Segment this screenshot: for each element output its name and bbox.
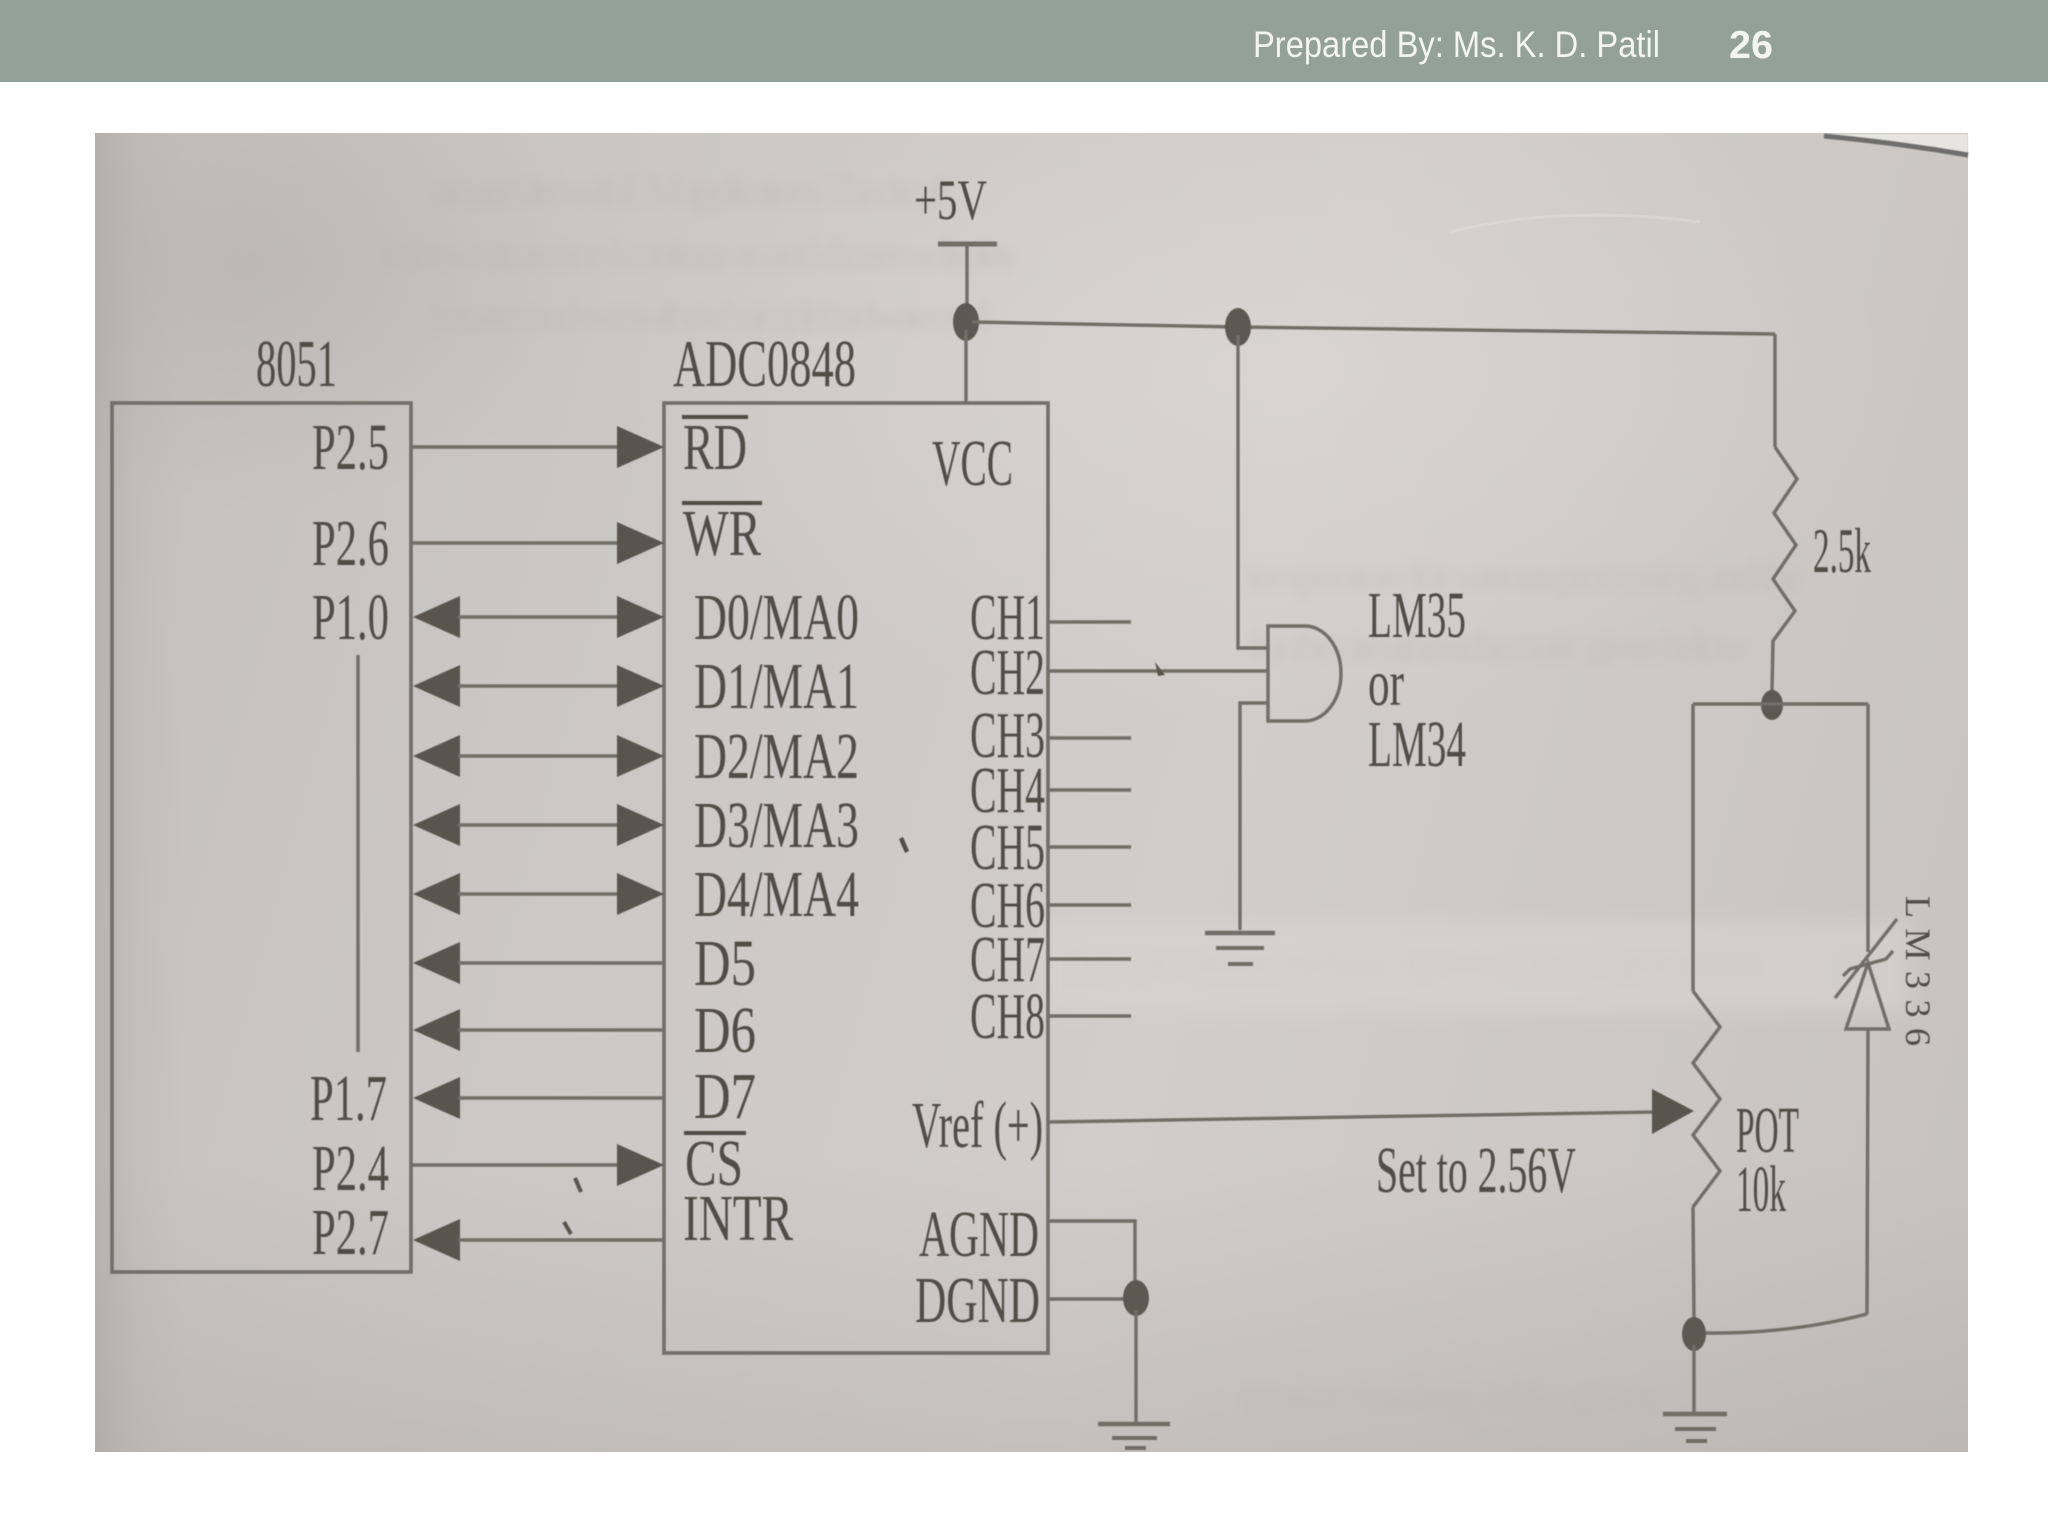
P1.0-P1.7 bus line inside 8051 [356,655,359,1052]
svg-text:D4/MA4: D4/MA4 [694,858,859,931]
svg-text:temperature for various proces: temperature for various processing and t… [1245,551,1805,600]
svg-text:D0/MA0: D0/MA0 [694,581,859,654]
svg-text:DGND: DGND [915,1264,1040,1337]
ink speck near CS wire [575,1178,581,1192]
svg-text:P2.7: P2.7 [312,1196,389,1269]
svg-text:sensor reading table given: sensor reading table given [1240,1371,1660,1420]
svg-text:INTR: INTR [683,1182,793,1255]
CH7 pin stub wire [1048,957,1131,960]
wire P2.6 to WR with right arrow [411,541,620,544]
svg-text:for the circuit in schematic g: for the circuit in schematic given below [1250,621,1750,670]
LM35 ground pin wire [1240,703,1268,930]
ghost bleed-through text on photo [380,166,1805,1420]
left branch down to POT [1691,704,1694,991]
svg-text:AGND: AGND [919,1198,1039,1271]
svg-text:P1.7: P1.7 [310,1062,387,1135]
LM35 temperature sensor body [1268,626,1341,721]
CH6 pin stub wire [1048,903,1131,906]
resistor 2.5k zigzag [1772,447,1797,691]
svg-text:P1.0: P1.0 [312,581,389,654]
svg-text:10k: 10k [1736,1153,1786,1226]
resistor 2.5k wire from rail [1773,334,1776,447]
svg-text:RD: RD [683,411,747,484]
svg-text:LM336: LM336 [1898,896,1938,1046]
wire junction to ground [1692,1345,1695,1412]
wire from +5V bar down [965,246,968,312]
svg-text:D1/MA1: D1/MA1 [694,650,859,723]
wire INTR to P2.7 with left arrow [413,1219,664,1261]
bidirectional wire P1.0/D0 [413,596,664,638]
svg-text:Set to 2.56V: Set to 2.56V [1376,1134,1576,1207]
wire down to LM35 top pin [1238,335,1268,648]
bidirectional wire D2 [413,735,664,777]
svg-text:ADC0848: ADC0848 [673,327,856,401]
potentiometer POT 10k zigzag [1693,991,1720,1207]
CH1 pin stub wire [1048,620,1131,623]
svg-text:WR: WR [683,497,761,570]
AGND wire [1048,1221,1135,1290]
junction node below 2.5k [1761,690,1783,720]
junction node at VCC [953,303,979,341]
svg-text:CH8: CH8 [970,980,1045,1053]
ground symbol bottom left [1098,1424,1170,1448]
wire D7 to P1.7 with left arrow [413,1077,664,1119]
8051 microcontroller box [112,403,411,1272]
wire D5 to P-bus with left arrow [413,942,664,984]
wire junction to VCC pin [964,330,967,403]
svg-text:D2/MA2: D2/MA2 [694,720,859,793]
ink speck on INTR wire [564,1222,571,1234]
wire P2.4 to CS with right arrow [411,1163,620,1166]
svg-text:Vref (+): Vref (+) [912,1089,1043,1162]
horizontal +5V rail wire [972,322,1775,334]
Vref wire with wiper arrow to POT [1048,1112,1658,1122]
svg-text:LM34: LM34 [1368,708,1466,781]
LM336 triangle [1846,963,1889,1029]
wire LM336 to loop bottom [1867,1029,1868,1314]
wire junction to ground [1134,1310,1137,1422]
svg-text:P2.5: P2.5 [312,411,389,484]
CH8 pin stub wire [1048,1014,1131,1017]
wire P2.5 to RD with right arrow [411,445,620,448]
svg-text:P2.6: P2.6 [312,507,389,580]
svg-text:+5V: +5V [914,169,987,232]
junction node AGND/DGND [1123,1280,1149,1316]
page edge curve (photographed book page corner, top right) [1826,134,1968,154]
LM336 adjust diagonal [1835,919,1897,998]
bidirectional wire D3 [413,804,664,846]
svg-text:D6: D6 [694,994,756,1067]
right branch down to LM336 [1866,704,1869,952]
svg-text:is shown in section I continue: is shown in section I continue an and ch… [380,229,1020,278]
CH3 pin stub wire [1048,736,1131,739]
tick mark on CH2 wire [1155,662,1165,676]
ground symbol bottom right [1663,1414,1727,1441]
bidirectional wire D1 [413,665,664,707]
ink mark after D3/MA3 [901,838,907,852]
CH4 pin stub wire [1048,788,1131,791]
svg-text:D5: D5 [694,927,756,1000]
svg-text:P2.4: P2.4 [312,1132,389,1205]
header title text [1253,24,1773,67]
svg-text:LM35: LM35 [1368,579,1466,652]
svg-text:D3/MA3: D3/MA3 [694,789,859,862]
svg-text:26: 26 [1729,24,1773,67]
junction node POT bottom [1682,1317,1706,1351]
svg-text:2.5k: 2.5k [1813,515,1871,586]
wire POT bottom to junction [1693,1207,1694,1322]
wire D6 with left arrow [413,1009,664,1051]
svg-text:VCC: VCC [932,427,1013,500]
bidirectional wire D4 [413,873,664,915]
svg-text:Prepared By: Ms. K. D. Patil: Prepared By: Ms. K. D. Patil [1253,24,1660,65]
CH2 wire to LM35 sensor [1048,669,1268,672]
ADC0848 box [664,403,1048,1353]
ground symbol under LM35 [1205,933,1275,964]
svg-text:pin and also with LM applicati: pin and also with LM applications. The c… [430,166,950,215]
loop top wire [1693,702,1868,705]
loop bottom slanted wire to junction [1706,1314,1867,1333]
faint white scratch [1450,215,1700,232]
DGND wire [1048,1297,1130,1300]
light reflection band [1040,922,1910,1012]
svg-text:D7: D7 [694,1060,756,1133]
CH5 pin stub wire [1048,845,1131,848]
junction node above LM35 [1225,308,1251,346]
zener diode LM336 cathode bar [1843,951,1893,976]
svg-text:8051: 8051 [256,327,337,401]
+5V supply bar [938,242,997,247]
